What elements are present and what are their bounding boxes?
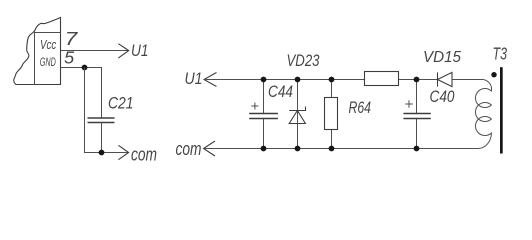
svg-text:T3: T3 bbox=[493, 44, 508, 64]
svg-text:5: 5 bbox=[64, 48, 74, 68]
junction dot VD23 top bbox=[295, 77, 301, 83]
transformer T3 winding bbox=[475, 80, 491, 149]
capacitor C21 bbox=[88, 118, 115, 123]
C40 plus sign bbox=[405, 100, 413, 107]
VD15 cathode bar bbox=[437, 72, 439, 86]
svg-text:com: com bbox=[176, 139, 202, 159]
junction dot com/C21 bbox=[99, 150, 105, 156]
transformer T3 core bbox=[500, 67, 503, 153]
bottom rail wire com bbox=[204, 148, 479, 150]
arrow to com net bbox=[118, 145, 128, 159]
junction dot VD23 bottom bbox=[295, 146, 301, 152]
svg-text:C40: C40 bbox=[430, 88, 456, 106]
svg-text:7: 7 bbox=[65, 29, 79, 49]
VD23 cathode bar with zener tail bbox=[289, 107, 305, 111]
C21 bottom lead bbox=[101, 123, 103, 153]
junction dot C40 bottom bbox=[414, 146, 420, 152]
svg-text:C44: C44 bbox=[268, 83, 293, 101]
IC inner vertical divider bbox=[34, 31, 36, 85]
arrow to U1 net bbox=[118, 44, 128, 58]
resistor R64 leads bbox=[331, 80, 333, 149]
junction dot C44 top bbox=[261, 77, 267, 83]
capacitor C44 leads bbox=[263, 80, 265, 149]
capacitor C40 leads bbox=[416, 80, 418, 149]
junction dot pin5 bbox=[82, 65, 88, 71]
svg-text:GND: GND bbox=[40, 55, 56, 69]
svg-text:C21: C21 bbox=[108, 94, 134, 112]
arrow U1 left bbox=[204, 73, 217, 87]
svg-text:U1: U1 bbox=[185, 70, 203, 88]
pin 7 wire bbox=[61, 50, 129, 52]
T3 winding start dot bbox=[491, 72, 496, 77]
arrow com left bbox=[204, 141, 216, 156]
wire pin5 to com bbox=[85, 68, 129, 153]
VD23 triangle bbox=[289, 111, 305, 124]
junction dot C40 top bbox=[414, 77, 420, 83]
svg-text:VD15: VD15 bbox=[423, 49, 461, 66]
diode VD15 triangle bbox=[438, 72, 453, 86]
IC separator line bbox=[35, 32, 61, 34]
top rail wire U1 bbox=[204, 79, 483, 81]
junction dot R64 bottom bbox=[329, 146, 335, 152]
svg-text:R64: R64 bbox=[349, 98, 372, 117]
op-amp U1 (partial IC, torn body) bbox=[14, 18, 61, 85]
svg-text:U1: U1 bbox=[131, 41, 149, 60]
junction dot R64 top bbox=[329, 77, 335, 83]
svg-text:com: com bbox=[131, 144, 157, 164]
svg-text:Vcc: Vcc bbox=[40, 38, 57, 52]
junction dot C44 bottom bbox=[261, 146, 267, 152]
resistor R64 body bbox=[325, 98, 338, 130]
pin 5 wire bbox=[61, 68, 102, 118]
capacitor C44 plates bbox=[249, 114, 278, 119]
series resistor body (top rail) bbox=[365, 72, 399, 86]
capacitor C40 plates bbox=[403, 114, 430, 119]
svg-text:VD23: VD23 bbox=[287, 52, 321, 70]
C44 plus sign bbox=[251, 103, 258, 110]
zener diode VD23 lead bbox=[297, 80, 299, 149]
